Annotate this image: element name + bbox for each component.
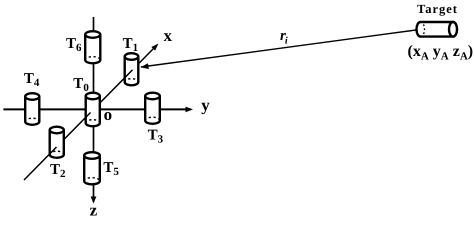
svg-text:y: y (201, 96, 210, 115)
svg-text:z: z (90, 200, 98, 219)
svg-text:x: x (164, 26, 173, 45)
svg-text:o: o (104, 105, 113, 124)
svg-text:Target: Target (417, 2, 458, 16)
